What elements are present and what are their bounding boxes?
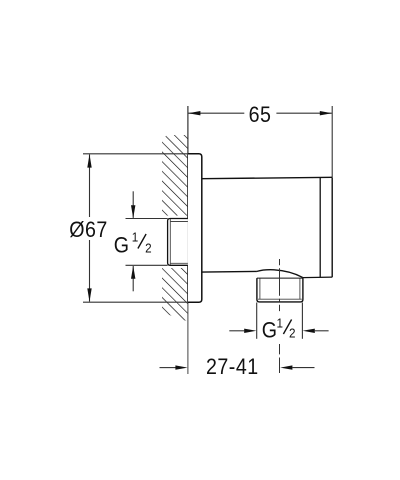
svg-text:65: 65 <box>249 103 272 127</box>
svg-text:G: G <box>262 319 277 343</box>
svg-text:Ø67: Ø67 <box>69 218 107 242</box>
svg-text:1: 1 <box>276 316 283 331</box>
svg-text:1: 1 <box>132 230 139 245</box>
svg-text:2: 2 <box>289 326 296 341</box>
svg-text:2: 2 <box>145 241 152 256</box>
svg-text:G: G <box>114 234 129 258</box>
svg-text:27-41: 27-41 <box>206 355 259 379</box>
